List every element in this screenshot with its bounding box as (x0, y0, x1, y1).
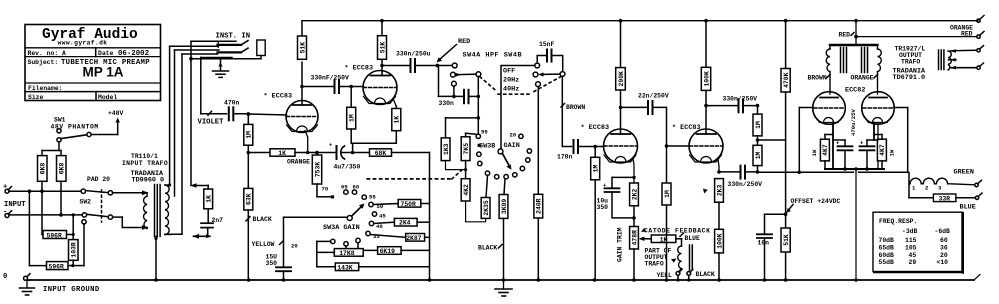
resistor 51K anode V1a (298, 21, 307, 60)
wire ladder top (446, 117, 479, 119)
capacitor 470u/25V left (833, 139, 845, 141)
resistor 4K7 left + 1W (825, 134, 833, 136)
svg-text:Date: Date (98, 50, 114, 57)
svg-text:20: 20 (940, 252, 948, 259)
svg-text:4u7/350: 4u7/350 (334, 164, 361, 171)
resistor 68K (370, 149, 392, 156)
svg-text:INPUT: INPUT (4, 201, 26, 209)
svg-text:103R: 103R (71, 242, 78, 258)
svg-text:INPUT GROUND: INPUT GROUND (43, 286, 100, 294)
SW3B wiper (498, 149, 503, 154)
capacitor 15nF (539, 41, 555, 48)
ground bottom rail (29, 279, 974, 281)
B+ top rail (302, 20, 978, 22)
title text Gyraf Audio (28, 27, 151, 101)
svg-text:100K: 100K (716, 233, 723, 249)
ORANGE terminal top right (977, 16, 984, 23)
svg-text:330n/250u: 330n/250u (396, 51, 431, 58)
svg-text:20: 20 (291, 243, 298, 250)
resistor 6K19 (357, 243, 359, 251)
freq response table (873, 212, 962, 271)
svg-text:596R: 596R (49, 263, 65, 270)
tube V2 ECC83 (581, 124, 610, 132)
svg-text:1W: 1W (889, 149, 896, 156)
svg-text:2K87: 2K87 (406, 235, 422, 242)
svg-text:330n/250V: 330n/250V (723, 95, 758, 102)
wire input minus line (9, 214, 82, 216)
svg-text:330nF/250V: 330nF/250V (311, 75, 350, 82)
capacitor 178n (574, 140, 579, 153)
svg-text:OFF: OFF (503, 67, 515, 75)
svg-text:Size: Size (28, 94, 44, 101)
resistor 103R vertical (69, 215, 79, 266)
wire common ladder rail (429, 153, 431, 281)
switch SW4B (535, 63, 540, 68)
svg-text:60dB: 60dB (879, 252, 895, 259)
capacitor 330nF/250V interstage (311, 75, 350, 82)
svg-text:51K: 51K (783, 234, 790, 246)
resistor 478K (781, 21, 790, 280)
capacitor 330n/250V lower (728, 181, 763, 188)
mech link dashed SW3A-SW3B (367, 178, 452, 180)
svg-text:* ECC83: * ECC83 (672, 124, 701, 132)
violet coupling cap 470n (198, 99, 240, 126)
capacitor 330n/250u coupling (396, 51, 431, 58)
svg-text:6K19: 6K19 (380, 248, 396, 255)
trafo primary winding (144, 193, 147, 229)
svg-text:3K09: 3K09 (501, 199, 508, 215)
wire cathode rail V1b (352, 143, 354, 152)
grid leads (799, 107, 813, 109)
svg-text:Subject:: Subject: (28, 59, 59, 66)
resistor 33R (909, 197, 933, 199)
svg-text:40Hz: 40Hz (503, 85, 519, 93)
svg-text:60: 60 (940, 237, 948, 244)
svg-text:* ECC83: * ECC83 (345, 65, 374, 73)
capacitor 15U/350 (276, 267, 291, 271)
labels BROWN ORANGE (808, 75, 874, 82)
svg-text:* ECC83: * ECC83 (581, 124, 610, 132)
wire SW4B pole to SW3B wiper (501, 66, 535, 149)
resistor 2K35 (486, 175, 488, 197)
svg-text:750R: 750R (401, 201, 417, 208)
label PART OF OUTPUT TRAFO (645, 247, 672, 267)
svg-text:1M: 1M (755, 121, 762, 129)
svg-text:2K35: 2K35 (483, 200, 490, 216)
wire secondary bottom up to jack (165, 233, 182, 235)
svg-text:1M: 1M (593, 165, 600, 173)
labels OFF 20Hz 40Hz (503, 67, 519, 93)
trimmer 478R gain trim (630, 227, 639, 250)
resistor 750R (373, 204, 398, 205)
resistor 200K (616, 21, 626, 108)
svg-text:1W: 1W (811, 149, 818, 156)
svg-text:-3dB: -3dB (902, 228, 918, 235)
resistor 1M grid leak V1b (347, 87, 356, 144)
input ground terminal (3, 273, 7, 281)
wire jack sleeve (191, 58, 261, 60)
svg-text:33R: 33R (939, 195, 951, 202)
svg-text:GAIN TRIM: GAIN TRIM (617, 227, 624, 262)
resistor 1M grid V3 (662, 183, 671, 205)
svg-text:2n7: 2n7 (212, 217, 224, 224)
svg-text:06-2002: 06-2002 (118, 50, 149, 58)
svg-text:2K2: 2K2 (631, 188, 638, 200)
resistor 1K feedback (270, 149, 295, 156)
svg-text:2K3: 2K3 (716, 184, 723, 196)
wire jack feeds (170, 45, 218, 47)
svg-text:TRAFO: TRAFO (645, 260, 664, 267)
svg-text:65dB: 65dB (879, 244, 895, 251)
svg-text:40: 40 (376, 223, 383, 230)
resistor 1K3 (441, 138, 450, 161)
switch SW3B gain rotary (479, 128, 520, 150)
resistor 753K to SW3A (312, 153, 321, 197)
node cathode feedback (247, 151, 251, 155)
resistor 4K7 right + 1W (874, 134, 882, 136)
resistor 100K tail (715, 229, 724, 253)
wire input plus line (9, 190, 81, 192)
svg-text:PAD 20: PAD 20 (87, 176, 110, 183)
svg-text:BLUE: BLUE (960, 204, 976, 212)
svg-text:330n/250V: 330n/250V (728, 181, 763, 188)
svg-text:350: 350 (597, 204, 609, 211)
svg-text:MP 1A: MP 1A (83, 65, 124, 80)
primary winding right (878, 45, 882, 94)
svg-text:470u/25V: 470u/25V (850, 109, 857, 136)
svg-text:2K4: 2K4 (399, 220, 411, 227)
resistor 51K anode V1b (378, 21, 387, 60)
mech link dashed SW4A-SW4B (480, 77, 561, 95)
capacitor 470u/25V right (867, 139, 878, 141)
svg-text:BLACK: BLACK (696, 271, 715, 278)
capacitor 4u7/350 (336, 146, 338, 159)
resistor 51K offset (781, 228, 790, 252)
resistor 2K87 (370, 235, 405, 238)
svg-text:1K3: 1K3 (443, 143, 450, 155)
wire 70 contact stub (317, 196, 331, 198)
svg-text:753K: 753K (314, 162, 321, 178)
wire 20 contact bracket (317, 240, 331, 242)
svg-text:TD9960 0: TD9960 0 (132, 176, 165, 184)
switch SW2 pad (80, 176, 111, 206)
svg-text:51K: 51K (379, 42, 386, 54)
chassis ground input (20, 280, 35, 295)
svg-text:20Hz: 20Hz (503, 76, 519, 84)
SW3A contacts arc (331, 190, 377, 246)
SW3A contact 70 (331, 195, 334, 198)
tube V1a ECC83 (264, 93, 293, 101)
svg-text:6K8: 6K8 (59, 163, 66, 175)
svg-text:INST. IN: INST. IN (216, 33, 251, 41)
resistor 6K8 (right) (57, 151, 67, 215)
label CATODE FEEDBACK (644, 228, 711, 235)
node phantom feed (58, 142, 60, 151)
trimmer wiper to 1K (638, 237, 644, 241)
jack contact ring (218, 48, 249, 52)
svg-text:Model: Model (98, 94, 117, 101)
output trafo secondary (939, 50, 944, 70)
cathode network output (833, 123, 878, 170)
svg-text:CATODE FEEDBACK: CATODE FEEDBACK (644, 228, 711, 235)
svg-text:TD6791.0: TD6791.0 (893, 74, 926, 82)
svg-text:7K5: 7K5 (463, 143, 470, 155)
resistor 6K8 (left) (38, 151, 48, 192)
svg-text:ORANGE: ORANGE (287, 159, 310, 166)
secondary taps (950, 49, 956, 53)
svg-text:15nF: 15nF (539, 41, 555, 48)
label BROWN (566, 104, 585, 111)
svg-text:1K: 1K (278, 150, 286, 157)
svg-text:100K: 100K (703, 71, 710, 87)
svg-text:105: 105 (905, 244, 917, 251)
resistor 1K near trafo (191, 183, 213, 209)
wire jack row1 (191, 40, 236, 42)
svg-text:0: 0 (3, 273, 7, 281)
svg-text:63K: 63K (246, 193, 253, 205)
svg-text:4K2: 4K2 (463, 184, 470, 196)
svg-text:www.gyraf.dk: www.gyraf.dk (58, 39, 108, 46)
svg-text:BROWN: BROWN (566, 104, 585, 111)
svg-text:SW4A HPF SW4B: SW4A HPF SW4B (463, 52, 523, 60)
svg-text:10n: 10n (758, 240, 770, 247)
svg-text:GREEN: GREEN (954, 169, 974, 177)
resistor 2K4 (374, 222, 395, 223)
svg-text:95: 95 (481, 128, 488, 135)
capacitor 2n7 (201, 223, 213, 227)
resistor 3K09 (504, 179, 505, 195)
svg-text:1M: 1M (664, 190, 671, 198)
svg-text:SW1: SW1 (54, 117, 66, 124)
resistor 240R on SW4B leg (537, 87, 539, 195)
switch SW3A gain rotary (291, 184, 386, 250)
resistor 1K cathode V1b (392, 106, 401, 143)
resistor 1K cathode feedback (651, 235, 676, 243)
tube V4b ECC82 (862, 92, 895, 125)
choke filter output (908, 173, 910, 198)
svg-text:1K: 1K (206, 195, 213, 203)
resistor 596R (lower) (29, 191, 73, 269)
svg-text:29: 29 (909, 259, 917, 266)
jack body (257, 40, 265, 56)
RED B+ tap wire to terminal (856, 36, 977, 38)
svg-text:RED: RED (458, 38, 470, 46)
label ORANGE (287, 159, 310, 166)
input terminal + (3, 184, 7, 192)
svg-text:20: 20 (510, 131, 517, 138)
svg-text:22n/250V: 22n/250V (638, 92, 669, 99)
ground under jack (213, 59, 229, 78)
capacitor 10n (765, 213, 786, 215)
input terminal minus (3, 209, 7, 217)
svg-text:RED: RED (839, 32, 851, 39)
svg-text:51K: 51K (299, 42, 306, 54)
svg-text:INPUT TRAFO: INPUT TRAFO (122, 160, 168, 167)
svg-text:YELL: YELL (657, 272, 673, 279)
wire SW4B to 178n (562, 76, 571, 146)
svg-text:VIOLET: VIOLET (198, 119, 225, 127)
cathode bus (825, 168, 884, 170)
wire verticals down to trafo (169, 46, 171, 185)
INST IN jack (216, 33, 251, 41)
capacitor 330n/250V upper (723, 95, 758, 102)
svg-text:SW3B: SW3B (479, 142, 495, 150)
svg-text:143K: 143K (337, 264, 353, 271)
label BLUE (685, 235, 701, 242)
tube V1b ECC83 (345, 65, 374, 73)
svg-text:ECC82: ECC82 (845, 86, 865, 94)
svg-text:Filename:: Filename: (28, 85, 63, 92)
svg-text:470n: 470n (224, 99, 240, 106)
svg-text:178n: 178n (557, 154, 573, 161)
svg-text:115: 115 (905, 237, 917, 244)
svg-text:+48V: +48V (108, 110, 124, 117)
svg-text:Rev. no: A: Rev. no: A (28, 50, 67, 57)
terminals YELL / BLACK (676, 272, 680, 276)
cathode network V2: cap 10u/350 (612, 176, 634, 178)
resistor 1M bias upper (753, 106, 762, 146)
title block frame (25, 25, 161, 101)
svg-text:36: 36 (940, 244, 948, 251)
resistor 2K2 cathode V2 (630, 183, 639, 206)
capacitor 330n shunt (453, 86, 455, 96)
svg-text:<10: <10 (937, 259, 949, 266)
svg-text:BROWN: BROWN (808, 75, 827, 82)
wire grid node V1a (248, 114, 286, 115)
svg-text:OFFSET +24VDC: OFFSET +24VDC (791, 198, 841, 205)
svg-text:1K: 1K (394, 116, 401, 124)
tube V3 ECC83 (672, 124, 701, 132)
svg-text:FREQ.RESP.: FREQ.RESP. (879, 218, 917, 225)
resistor 7K5 (465, 133, 467, 137)
svg-text:45: 45 (379, 213, 386, 220)
svg-text:68K: 68K (375, 150, 387, 157)
svg-text:TRAFO: TRAFO (901, 58, 920, 65)
chassis ground below rail at 3K09 (495, 280, 512, 296)
rail junction dots (247, 278, 858, 282)
svg-text:200K: 200K (618, 71, 625, 87)
resistor 100K anode V3 (701, 21, 710, 106)
svg-text:55dB: 55dB (879, 259, 895, 266)
resistor 143K (335, 263, 358, 271)
resistor 4K2 (461, 179, 470, 201)
svg-text:6K8: 6K8 (40, 163, 47, 175)
svg-text:4K7: 4K7 (879, 144, 886, 156)
capacitor 22n/250V (638, 92, 669, 99)
svg-text:478R: 478R (631, 230, 638, 246)
wire grid V3 (667, 145, 690, 147)
svg-text:* ECC83: * ECC83 (264, 93, 293, 101)
tube V4a ECC82 (845, 86, 865, 94)
wire YELLOW drop to 15U cap (283, 217, 285, 267)
label RED with arrow (458, 38, 470, 46)
svg-text:1M: 1M (349, 114, 356, 122)
svg-text:70dB: 70dB (879, 237, 895, 244)
svg-text:-6dB: -6dB (935, 228, 951, 235)
svg-text:596R: 596R (47, 232, 63, 239)
input label (4, 201, 26, 209)
svg-text:478K: 478K (783, 72, 790, 88)
svg-text:BLACK: BLACK (478, 245, 497, 252)
svg-text:RED: RED (961, 31, 973, 38)
svg-text:ORANGE: ORANGE (851, 75, 874, 82)
trafo secondary winding (165, 183, 171, 234)
svg-text:240R: 240R (536, 198, 543, 214)
svg-text:4K7: 4K7 (822, 144, 829, 156)
svg-text:350: 350 (266, 260, 278, 267)
label BLACK (478, 245, 497, 252)
resistor 596R (upper) (42, 191, 73, 238)
wire grid bus to output tubes (758, 171, 854, 173)
wire core shield to ground (155, 236, 157, 280)
input transformer TR110 (122, 153, 168, 184)
trafo core (155, 185, 161, 237)
svg-text:GAIN: GAIN (504, 142, 520, 150)
primary winding left (826, 45, 830, 94)
svg-text:YELLOW: YELLOW (252, 241, 275, 248)
svg-text:45: 45 (909, 252, 917, 259)
resistor 63K (244, 153, 253, 281)
resistor 17K8 (345, 246, 347, 249)
svg-text:BLUE: BLUE (685, 235, 701, 242)
svg-text:17K8: 17K8 (339, 250, 355, 257)
svg-text:70: 70 (322, 186, 329, 193)
resistor 2K3 cathode V3 (715, 179, 724, 203)
svg-text:55: 55 (369, 194, 376, 201)
svg-text:BLACK: BLACK (253, 216, 272, 223)
output trafo labels (893, 46, 927, 82)
output trafo primary CT (855, 21, 857, 45)
switch SW1 48V phantom (51, 110, 124, 131)
feedback winding part of output trafo (681, 239, 683, 246)
resistor 1M grid leak V1a (244, 114, 253, 153)
resistor 1M bias lower (753, 145, 762, 172)
svg-text:330n: 330n (439, 100, 455, 107)
svg-text:SW3A GAIN: SW3A GAIN (323, 224, 360, 232)
SW3A wiper (284, 216, 348, 218)
svg-text:1M: 1M (246, 131, 253, 139)
svg-text:SW2: SW2 (80, 199, 92, 206)
switch SW4A (463, 52, 523, 60)
resistor 1M grid V2 (591, 147, 600, 281)
offset node (784, 212, 788, 216)
svg-text:1M: 1M (755, 151, 762, 159)
jack contact tip (218, 41, 249, 48)
